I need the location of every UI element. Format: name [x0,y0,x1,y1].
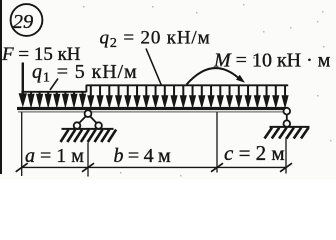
dimension tick at a/b [82,163,94,172]
ground hatching support A [61,130,117,142]
dimension tick at b/c [211,163,223,172]
leader line q1 [50,79,58,91]
beam bottom edge (faint) [18,111,288,113]
pinned support A triangle [74,110,102,129]
beam [17,107,288,110]
svg-text:q2 = 20 кН/м: q2 = 20 кН/м [100,27,211,51]
moment M arc arrow [187,68,246,84]
extension line at b/c boundary [216,112,218,173]
extension line under support B [285,138,287,174]
svg-text:a = 1 м: a = 1 м [25,145,84,167]
dimension tick at right end [280,163,292,172]
svg-text:c = 2 м: c = 2 м [224,141,285,165]
problem number circle 29 [11,4,43,36]
ground hatching support B [265,128,309,139]
distributed load q1 arrows [27,92,86,109]
distributed load q2 arrows [87,86,288,109]
distributed load q1 top line [21,91,86,93]
svg-text:29: 29 [13,11,34,33]
extension line under support A [87,143,89,177]
svg-text:b = 4 м: b = 4 м [114,145,171,167]
ground line support A [62,128,114,130]
dimension line [22,166,286,168]
extension line at beam left end [21,112,23,176]
scan speckles [83,4,332,177]
ground line support B [270,126,310,128]
leader line q2 [146,49,162,86]
svg-text:M = 10 кН · м: M = 10 кН · м [213,49,331,71]
distributed load q2 top line [86,84,288,86]
roller support B [284,108,291,127]
step between q1 and q2 lines [85,85,87,92]
force F arrow [19,63,27,108]
dimension tick at a-left [16,163,28,172]
left page border [0,0,2,174]
